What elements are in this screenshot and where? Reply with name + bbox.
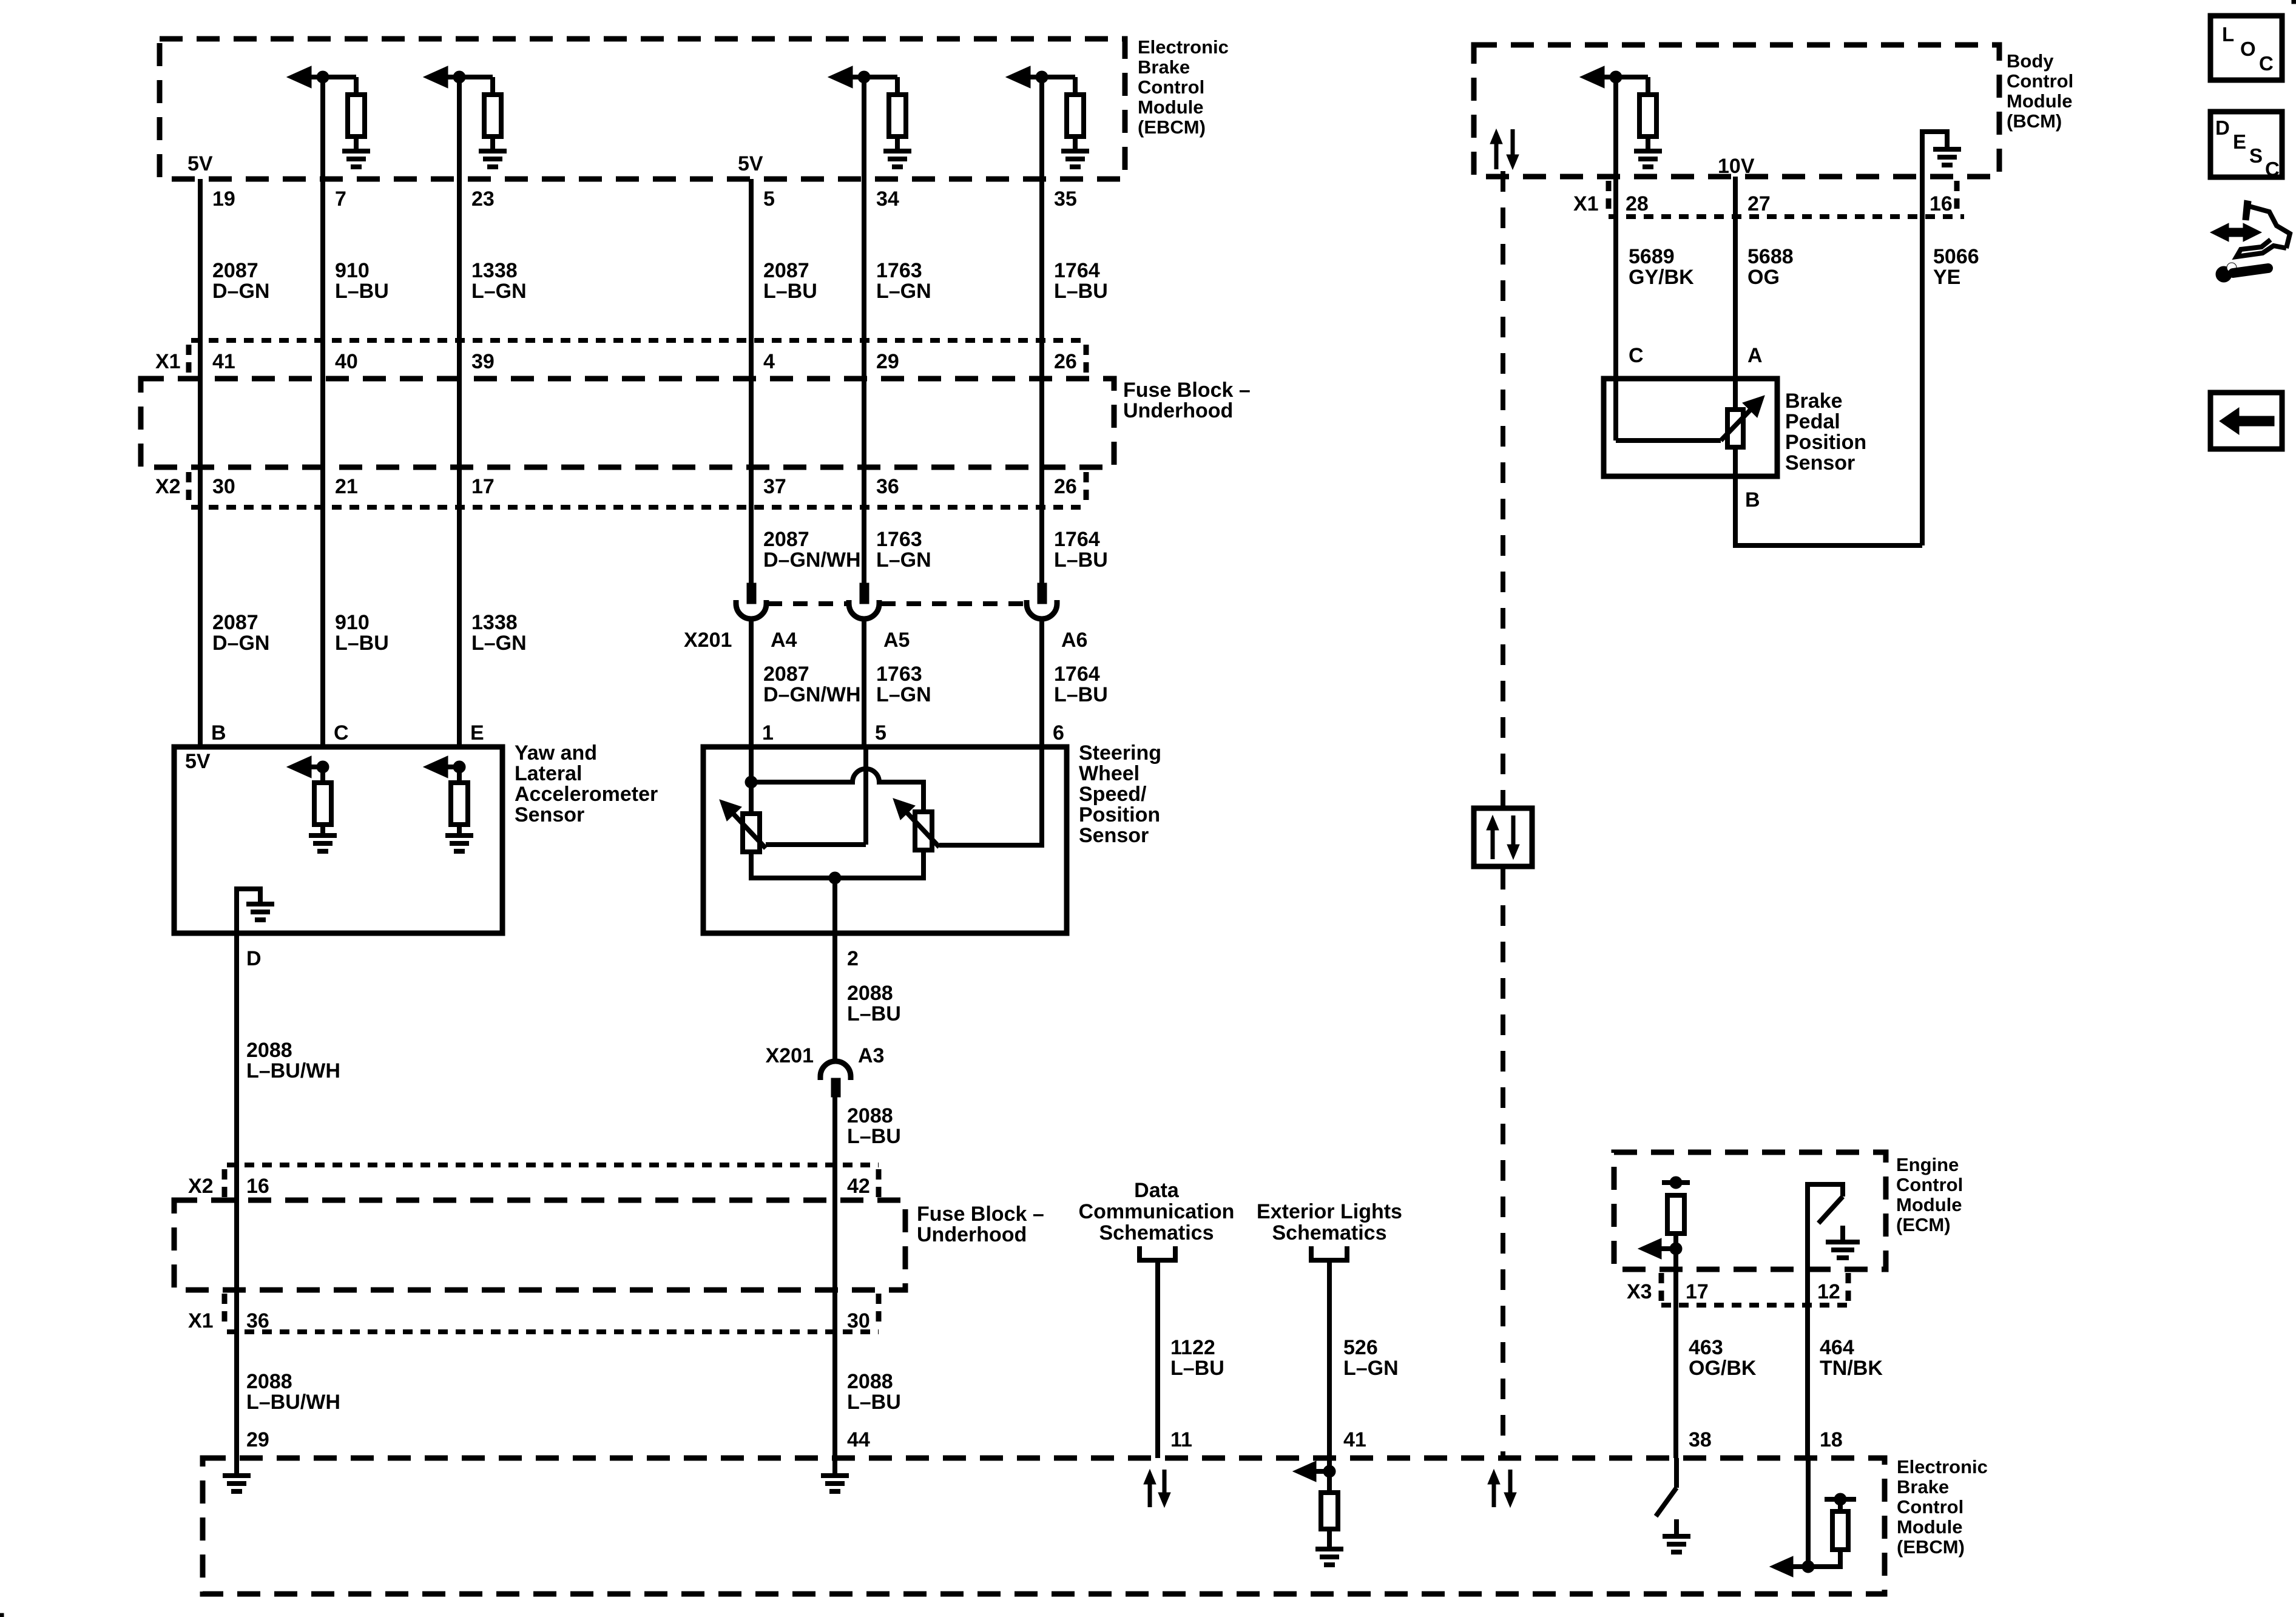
svg-text:TN/BK: TN/BK: [1820, 1357, 1883, 1380]
wire pin5 internal: [863, 747, 868, 845]
ground (EBCM pin 38): [1674, 1519, 1679, 1536]
svg-text:L–GN: L–GN: [1343, 1357, 1399, 1380]
svg-text:1: 1: [762, 721, 774, 744]
svg-text:Electronic: Electronic: [1897, 1456, 1988, 1477]
svg-text:X201: X201: [766, 1044, 814, 1067]
svg-text:L–BU: L–BU: [1054, 549, 1108, 572]
fuse block underhood box (lower): [174, 1200, 905, 1290]
svg-text:Lateral: Lateral: [515, 762, 582, 785]
wire 5066 YE: [1920, 177, 1925, 545]
yaw internal output (arrow) wire 532: [287, 756, 311, 778]
svg-text:41: 41: [1343, 1428, 1366, 1451]
svg-text:910: 910: [335, 611, 370, 634]
svg-text:Schematics: Schematics: [1099, 1221, 1214, 1244]
X3 left tick: [1659, 1273, 1664, 1302]
svg-text:37: 37: [763, 475, 786, 498]
svg-text:L–BU: L–BU: [335, 632, 389, 655]
X1 left tick: [222, 1294, 228, 1328]
inline connector X201 A6 male pin: [1038, 583, 1047, 604]
ECM X3 connector row line: [1661, 1303, 1848, 1308]
steering wheel speed/position sensor box: [703, 747, 1067, 933]
svg-text:(BCM): (BCM): [2007, 110, 2062, 132]
svg-text:1338: 1338: [471, 611, 518, 634]
EBCM output driver (arrow) pin wire 1424: [828, 66, 853, 88]
inline connector X201 A5 female: [849, 600, 879, 619]
svg-text:10V: 10V: [1718, 155, 1755, 178]
svg-text:L–BU: L–BU: [1054, 683, 1108, 706]
svg-text:Position: Position: [1079, 803, 1160, 826]
X1 right tick: [1954, 181, 1960, 214]
svg-text:Module: Module: [1896, 1194, 1962, 1215]
svg-text:Data: Data: [1134, 1179, 1180, 1202]
svg-text:526: 526: [1343, 1336, 1378, 1359]
ground (EBCM internal): [895, 137, 900, 151]
ground (EBCM internal): [1073, 137, 1078, 151]
svg-text:Steering: Steering: [1079, 741, 1161, 765]
svg-text:B: B: [211, 721, 226, 744]
svg-text:16: 16: [1930, 192, 1953, 215]
svg-text:(ECM): (ECM): [1896, 1214, 1951, 1235]
svg-text:2087: 2087: [212, 611, 258, 634]
svg-text:5V: 5V: [187, 152, 213, 175]
junction pin1: [745, 776, 757, 788]
svg-text:A4: A4: [771, 629, 797, 652]
serial data dashed wire (upper): [1501, 171, 1505, 806]
junction: [858, 71, 870, 83]
resistor (EBCM pin 18): [1825, 1497, 1856, 1502]
svg-text:L–GN: L–GN: [876, 683, 931, 706]
svg-text:19: 19: [212, 187, 235, 211]
wire 1763 lower segment: [862, 618, 866, 747]
wire 5689 GY/BK: [1613, 77, 1618, 441]
svg-text:Yaw and: Yaw and: [515, 741, 597, 765]
wire 1764 lower segment: [1039, 618, 1044, 747]
svg-text:Position: Position: [1785, 431, 1866, 454]
wire 1763 from EBCM pin 34 (upper segment): [862, 77, 866, 583]
svg-text:Module: Module: [1138, 96, 1204, 118]
svg-text:X1: X1: [1573, 192, 1599, 215]
svg-text:5: 5: [875, 721, 886, 744]
ECM internal supply bar (pin 17): [1662, 1180, 1690, 1185]
internal link pin1 to right pot (with crossover bump): [751, 769, 923, 812]
EBCM output driver (arrow) pin wire 1717: [1006, 66, 1030, 88]
BCM X1 connector row line: [1609, 214, 1964, 219]
svg-text:C: C: [2265, 158, 2280, 180]
svg-text:26: 26: [1054, 350, 1077, 373]
svg-text:Brake: Brake: [1897, 1476, 1949, 1497]
svg-text:Communication: Communication: [1079, 1200, 1235, 1223]
junction pin2: [829, 872, 841, 884]
svg-text:S: S: [2249, 144, 2263, 167]
potentiometer right (steering): [915, 812, 932, 850]
X2 row left tick: [186, 472, 192, 504]
wire 2087 lower segment: [749, 618, 754, 747]
yaw internal ground (pin D): [237, 889, 260, 933]
X1 row left tick: [186, 345, 192, 376]
svg-text:Control: Control: [1138, 76, 1204, 98]
svg-text:17: 17: [1686, 1280, 1709, 1303]
svg-text:Brake: Brake: [1138, 56, 1190, 78]
link pin5 to left wiper: [766, 842, 866, 847]
brake pedal position sensor box: [1604, 379, 1777, 476]
wire 2088 L-BU lower segment: [832, 1097, 837, 1458]
svg-text:1122: 1122: [1170, 1336, 1215, 1359]
svg-text:36: 36: [876, 475, 899, 498]
svg-text:1763: 1763: [876, 259, 922, 282]
inline connector X201 A4 male pin: [747, 583, 756, 604]
svg-text:21: 21: [335, 475, 358, 498]
svg-text:L: L: [2222, 23, 2234, 46]
wire pin1 internal: [749, 747, 754, 814]
junction: [453, 761, 465, 773]
svg-text:X2: X2: [188, 1175, 214, 1198]
svg-text:Exterior Lights: Exterior Lights: [1257, 1200, 1402, 1223]
svg-text:D: D: [2215, 116, 2230, 139]
svg-text:26: 26: [1054, 475, 1077, 498]
wire 2087 D–GN from EBCM pin 19: [198, 179, 203, 747]
svg-text:29: 29: [876, 350, 899, 373]
inline connector X201 A3 female: [820, 1061, 851, 1080]
svg-text:L–BU/WH: L–BU/WH: [246, 1059, 340, 1082]
svg-text:2088: 2088: [847, 1370, 893, 1393]
svg-text:X2: X2: [155, 475, 181, 498]
wire 5688 OG: [1733, 177, 1738, 476]
svg-text:C: C: [1629, 344, 1644, 367]
junction: [453, 71, 465, 83]
resistor (BCM internal): [1646, 77, 1650, 95]
BPPS internal link C to wiper: [1616, 438, 1721, 443]
LOC navigation icon: [2210, 16, 2282, 80]
svg-text:X1: X1: [155, 350, 181, 373]
svg-text:GY/BK: GY/BK: [1629, 266, 1694, 289]
ground (EBCM internal): [354, 137, 359, 151]
svg-text:L–GN: L–GN: [876, 549, 931, 572]
inline connector X201 A4 female: [736, 600, 766, 619]
svg-text:O: O: [2240, 38, 2256, 60]
wire pin B loop to BCM 16: [1735, 476, 1922, 545]
svg-text:A3: A3: [858, 1044, 884, 1067]
svg-text:2088: 2088: [246, 1039, 292, 1062]
svg-text:L–BU: L–BU: [847, 1391, 901, 1414]
DESC navigation icon: [2210, 112, 2282, 177]
X3 right tick: [1846, 1273, 1851, 1302]
svg-text:1764: 1764: [1054, 528, 1100, 551]
EBCM bottom module box: [203, 1458, 1885, 1594]
wire 464 TN/BK: [1805, 1269, 1810, 1458]
serial data up/down arrows (EBCM end): [1492, 1480, 1496, 1507]
potentiometer left (steering): [743, 814, 760, 852]
svg-text:18: 18: [1820, 1428, 1843, 1451]
junction: [1036, 71, 1048, 83]
svg-text:YE: YE: [1933, 266, 1960, 289]
ground (EBCM pin 41): [1327, 1529, 1332, 1549]
svg-text:5V: 5V: [185, 750, 211, 773]
svg-text:Electronic: Electronic: [1138, 36, 1229, 58]
svg-text:L–GN: L–GN: [876, 280, 931, 303]
EBCM output driver (arrow) pin wire 532: [287, 66, 311, 88]
BCM internal output (arrow): [1580, 66, 1604, 88]
svg-text:35: 35: [1054, 187, 1077, 211]
wire 1122 L-BU: [1155, 1260, 1160, 1458]
svg-text:A5: A5: [883, 629, 910, 652]
EBCM internal (pin 18): resistor network: [1806, 1458, 1811, 1567]
ECM internal switch (pin 12): [1808, 1184, 1843, 1269]
svg-text:Sensor: Sensor: [515, 803, 584, 826]
svg-text:L–BU: L–BU: [847, 1125, 901, 1148]
X2 connector row line (lower block): [227, 1163, 879, 1167]
svg-text:Speed/: Speed/: [1079, 783, 1147, 806]
potentiometer (BPPS): [1727, 410, 1743, 447]
svg-text:Underhood: Underhood: [917, 1223, 1027, 1246]
svg-text:44: 44: [847, 1428, 870, 1451]
svg-text:27: 27: [1747, 192, 1771, 215]
svg-text:Control: Control: [1896, 1174, 1963, 1195]
svg-text:Sensor: Sensor: [1785, 451, 1855, 474]
svg-text:C: C: [334, 721, 349, 744]
svg-text:1764: 1764: [1054, 663, 1100, 686]
svg-text:1338: 1338: [471, 259, 518, 282]
svg-text:X1: X1: [188, 1309, 214, 1332]
junction: [1610, 71, 1622, 83]
svg-text:12: 12: [1817, 1280, 1840, 1303]
testing/wrench icon: double arrow: [2210, 223, 2261, 241]
serial data link box with arrows: [1474, 808, 1532, 866]
svg-text:23: 23: [471, 187, 495, 211]
svg-text:1764: 1764: [1054, 259, 1100, 282]
potentiometer left wiper arrow: [727, 807, 766, 848]
wire 910 L–BU from EBCM pin 7: [320, 77, 325, 747]
svg-text:L–BU: L–BU: [847, 1002, 901, 1025]
ground (ECM internal): [1840, 1226, 1845, 1242]
testing/wrench icon: slant bar: [2243, 200, 2251, 220]
wire pin2 internal: [832, 878, 837, 933]
svg-text:Control: Control: [2007, 70, 2073, 92]
EBCM internal (pin 41): junction + arrow: [1323, 1465, 1335, 1477]
svg-text:B: B: [1745, 488, 1760, 511]
svg-text:16: 16: [246, 1175, 269, 1198]
svg-text:2087: 2087: [763, 663, 809, 686]
X201 dashed connector line: [768, 601, 849, 606]
X1 connector row line: [191, 338, 1086, 343]
svg-text:Wheel: Wheel: [1079, 762, 1140, 785]
svg-text:Body: Body: [2007, 50, 2054, 72]
svg-text:2087: 2087: [763, 528, 809, 551]
svg-text:4: 4: [763, 350, 775, 373]
yaw internal output (arrow) wire 757: [424, 756, 448, 778]
resistor (EBCM internal): [354, 77, 359, 95]
BCM module box: [1474, 45, 1999, 177]
svg-text:34: 34: [876, 187, 899, 211]
svg-text:Control: Control: [1897, 1496, 1963, 1517]
svg-text:(EBCM): (EBCM): [1138, 116, 1206, 138]
svg-text:D–GN: D–GN: [212, 280, 269, 303]
svg-text:L–BU: L–BU: [1170, 1357, 1224, 1380]
resistor (yaw internal): [457, 767, 462, 783]
BCM internal ground (pin 16): [1922, 132, 1947, 177]
inline connector X201 A3 male pin: [831, 1078, 840, 1097]
svg-text:L–BU/WH: L–BU/WH: [246, 1391, 340, 1414]
svg-text:42: 42: [847, 1175, 870, 1198]
serial data up/down arrows (BCM): [1494, 140, 1499, 169]
svg-text:E: E: [470, 721, 484, 744]
back navigation icon: [2210, 393, 2282, 449]
svg-text:28: 28: [1626, 192, 1649, 215]
svg-text:Brake: Brake: [1785, 390, 1843, 413]
off-page bracket (exterior lights): [1311, 1246, 1347, 1260]
svg-text:463: 463: [1689, 1336, 1723, 1359]
svg-text:5689: 5689: [1629, 245, 1675, 268]
wire 2087 from EBCM pin 5 (upper segment): [749, 179, 754, 583]
ground (EBCM internal): [490, 137, 495, 151]
potentiometer right wiper arrow: [900, 806, 939, 847]
svg-text:Module: Module: [1897, 1516, 1963, 1538]
svg-text:2088: 2088: [847, 1104, 893, 1127]
junction: [317, 71, 329, 83]
svg-text:30: 30: [847, 1309, 870, 1332]
svg-text:1763: 1763: [876, 528, 922, 551]
svg-text:X3: X3: [1627, 1280, 1652, 1303]
svg-text:39: 39: [471, 350, 495, 373]
potentiometer wiper arrow (BPPS): [1721, 404, 1756, 441]
svg-text:Schematics: Schematics: [1272, 1221, 1387, 1244]
wire 463 OG/BK: [1673, 1269, 1678, 1458]
resistor (EBCM internal): [490, 77, 495, 95]
resistor (EBCM pin 41): [1327, 1471, 1332, 1493]
svg-text:C: C: [2259, 52, 2274, 75]
wire 2088 L-BU/WH from yaw pin D: [234, 933, 239, 1458]
ECM module box: [1614, 1152, 1886, 1269]
svg-text:Module: Module: [2007, 90, 2073, 112]
svg-text:OG/BK: OG/BK: [1689, 1357, 1757, 1380]
svg-text:464: 464: [1820, 1336, 1854, 1359]
ground (yaw internal): [320, 825, 325, 836]
EBCM internal switch (pin 38): [1674, 1458, 1679, 1488]
svg-text:41: 41: [212, 350, 235, 373]
junction: [317, 761, 329, 773]
svg-text:A6: A6: [1061, 629, 1087, 652]
EBCM output driver (arrow) pin wire 757: [424, 66, 448, 88]
svg-text:L–GN: L–GN: [471, 632, 527, 655]
svg-text:5066: 5066: [1933, 245, 1979, 268]
inline connector X201 A6 female: [1027, 600, 1057, 619]
X2 left tick: [222, 1169, 228, 1198]
svg-text:11: 11: [1170, 1428, 1192, 1451]
svg-text:36: 36: [246, 1309, 269, 1332]
svg-text:29: 29: [246, 1428, 269, 1451]
svg-text:L–BU: L–BU: [335, 280, 389, 303]
svg-text:D–GN: D–GN: [212, 632, 269, 655]
svg-text:2088: 2088: [246, 1370, 292, 1393]
svg-text:1763: 1763: [876, 663, 922, 686]
svg-text:Fuse Block –: Fuse Block –: [917, 1203, 1044, 1226]
svg-text:L–BU: L–BU: [1054, 280, 1108, 303]
svg-text:D–GN/WH: D–GN/WH: [763, 549, 861, 572]
svg-text:D: D: [246, 947, 262, 970]
testing/wrench icon: wrench: [2216, 266, 2232, 282]
svg-text:30: 30: [212, 475, 235, 498]
svg-text:910: 910: [335, 259, 370, 282]
X2 right tick: [876, 1169, 882, 1198]
fuse block underhood box (upper): [141, 379, 1114, 467]
ground (BCM internal): [1646, 137, 1650, 151]
X2 row right tick: [1084, 472, 1089, 504]
svg-text:2087: 2087: [763, 259, 809, 282]
inline connector X201 A5 male pin: [860, 583, 869, 604]
svg-text:38: 38: [1689, 1428, 1712, 1451]
svg-text:OG: OG: [1747, 266, 1780, 289]
svg-text:7: 7: [335, 187, 346, 211]
page corner mark top right: [2292, 0, 2296, 4]
X2 connector row line: [191, 505, 1086, 510]
X1 row right tick: [1084, 345, 1089, 376]
EBCM top module box: [160, 39, 1125, 179]
bottom link of pots: [751, 850, 923, 878]
svg-text:17: 17: [471, 475, 495, 498]
ECM internal output (arrow): [1673, 1234, 1678, 1269]
ground (EBCM pin 29): [234, 1458, 239, 1476]
wire 1338 L–GN from EBCM pin 23: [457, 77, 462, 747]
off-page bracket (data comm): [1140, 1246, 1175, 1260]
svg-text:L–GN: L–GN: [471, 280, 527, 303]
X1 connector row line (lower block): [227, 1329, 879, 1334]
yaw and lateral accelerometer sensor box: [174, 747, 502, 933]
page corner mark bottom left: [0, 1613, 4, 1617]
svg-text:2088: 2088: [847, 982, 893, 1005]
svg-text:40: 40: [335, 350, 358, 373]
wire 2088 L-BU upper segment: [832, 933, 837, 1062]
svg-text:2: 2: [847, 947, 859, 970]
svg-text:Engine: Engine: [1896, 1154, 1959, 1175]
wire 526 L-GN: [1327, 1260, 1332, 1471]
resistor (EBCM internal): [895, 77, 900, 95]
svg-text:D–GN/WH: D–GN/WH: [763, 683, 861, 706]
svg-text:A: A: [1747, 344, 1763, 367]
ground (yaw internal): [457, 825, 462, 836]
resistor (ECM internal): [1667, 1195, 1684, 1234]
testing/wrench icon: outline shape: [2249, 206, 2290, 248]
svg-text:E: E: [2233, 130, 2246, 153]
X1 right tick: [876, 1294, 882, 1328]
resistor (EBCM internal): [1073, 77, 1078, 95]
svg-text:5V: 5V: [738, 152, 763, 175]
svg-text:Sensor: Sensor: [1079, 824, 1149, 847]
svg-text:5: 5: [763, 187, 775, 211]
svg-text:5688: 5688: [1747, 245, 1794, 268]
wire 1764 from EBCM pin 35 (upper segment): [1039, 77, 1044, 583]
resistor (yaw internal): [320, 767, 325, 783]
svg-text:6: 6: [1053, 721, 1064, 744]
svg-text:Accelerometer: Accelerometer: [515, 783, 658, 806]
ground (EBCM pin 44): [832, 1458, 837, 1476]
svg-text:(EBCM): (EBCM): [1897, 1536, 1965, 1558]
svg-text:Pedal: Pedal: [1785, 410, 1840, 433]
serial data arrows (pin 11): [1148, 1480, 1152, 1507]
svg-text:Fuse Block –: Fuse Block –: [1123, 379, 1251, 402]
svg-text:L–BU: L–BU: [763, 280, 817, 303]
wire pin6 internal: [939, 747, 1042, 845]
svg-text:X201: X201: [684, 629, 732, 652]
svg-text:Underhood: Underhood: [1123, 399, 1233, 422]
X1 left tick: [1606, 181, 1612, 214]
svg-text:2087: 2087: [212, 259, 258, 282]
serial data dashed wire (lower): [1501, 869, 1505, 1458]
